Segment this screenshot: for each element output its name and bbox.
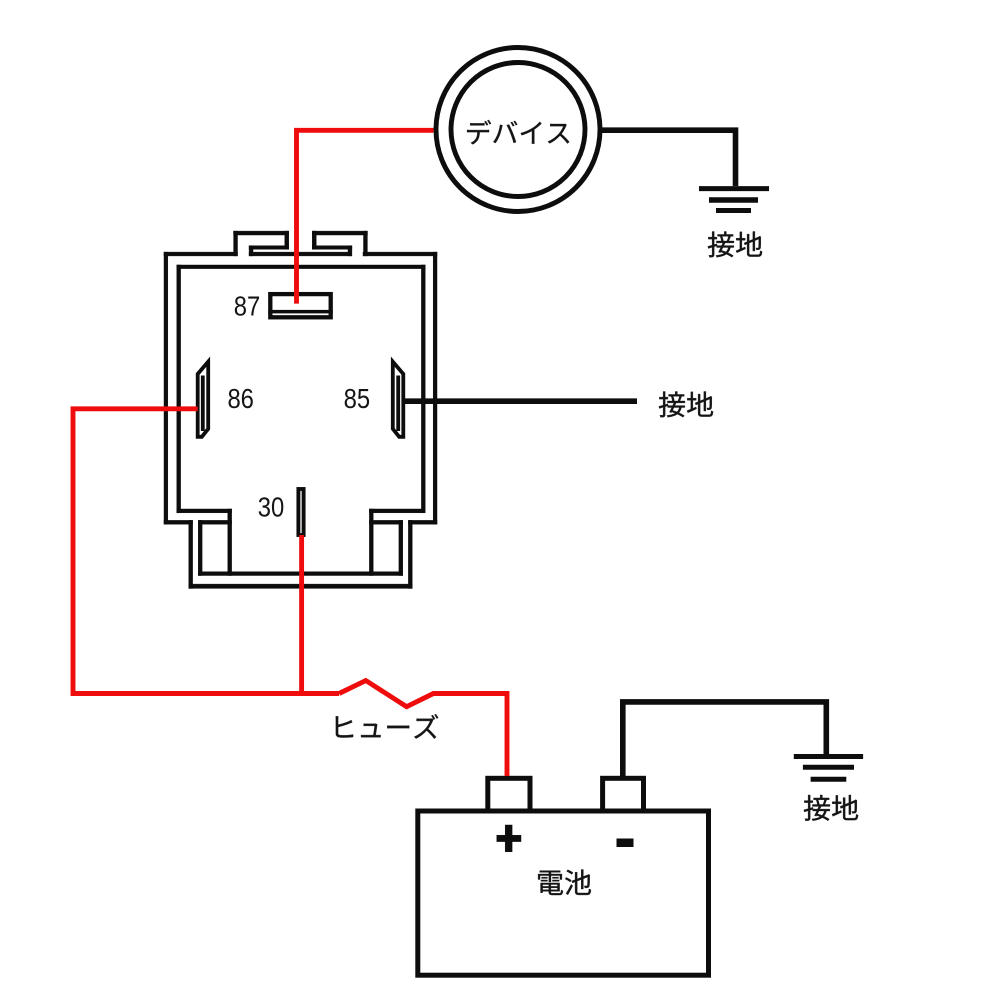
svg-text:30: 30 [258,491,285,522]
battery plus terminal [488,778,530,811]
svg-text:87: 87 [234,291,261,322]
wire battery minus to ground (black) [623,702,827,778]
pin 87 terminal [270,294,330,317]
wire pin85 to ground (black) [404,398,637,404]
battery body [418,811,709,975]
relay body outline top [164,252,437,269]
device lamp outer circle [436,48,600,212]
svg-text:85: 85 [344,383,371,414]
fuse label ヒューズ [336,714,439,739]
battery minus terminal [603,778,644,811]
device label デバイス [467,120,569,144]
pin 30 terminal [298,489,303,535]
red wire pin86 left loop [73,409,339,694]
relay bottom skirt and feet [164,509,437,588]
ground label right 接地 [659,391,713,417]
red wire pin87 to device [297,130,434,303]
ground symbol bottom right [794,757,863,780]
battery label 電池 [538,870,591,895]
ground symbol top right [699,189,769,211]
wire device to ground (black) [600,130,736,186]
relay left mounting tab [234,231,289,256]
pin 85 blade [393,362,404,437]
ground label bottom right 接地 [804,795,858,821]
plus sign [497,825,521,852]
svg-text:86: 86 [227,383,254,414]
ground label top right 接地 [708,231,762,257]
relay right mounting tab [312,231,367,256]
red wire pin30 down [299,535,304,696]
relay side walls [164,252,437,524]
minus sign [617,839,634,848]
fuse zigzag [339,681,507,777]
device lamp inner circle [451,63,585,197]
pin 86 blade [198,362,209,437]
